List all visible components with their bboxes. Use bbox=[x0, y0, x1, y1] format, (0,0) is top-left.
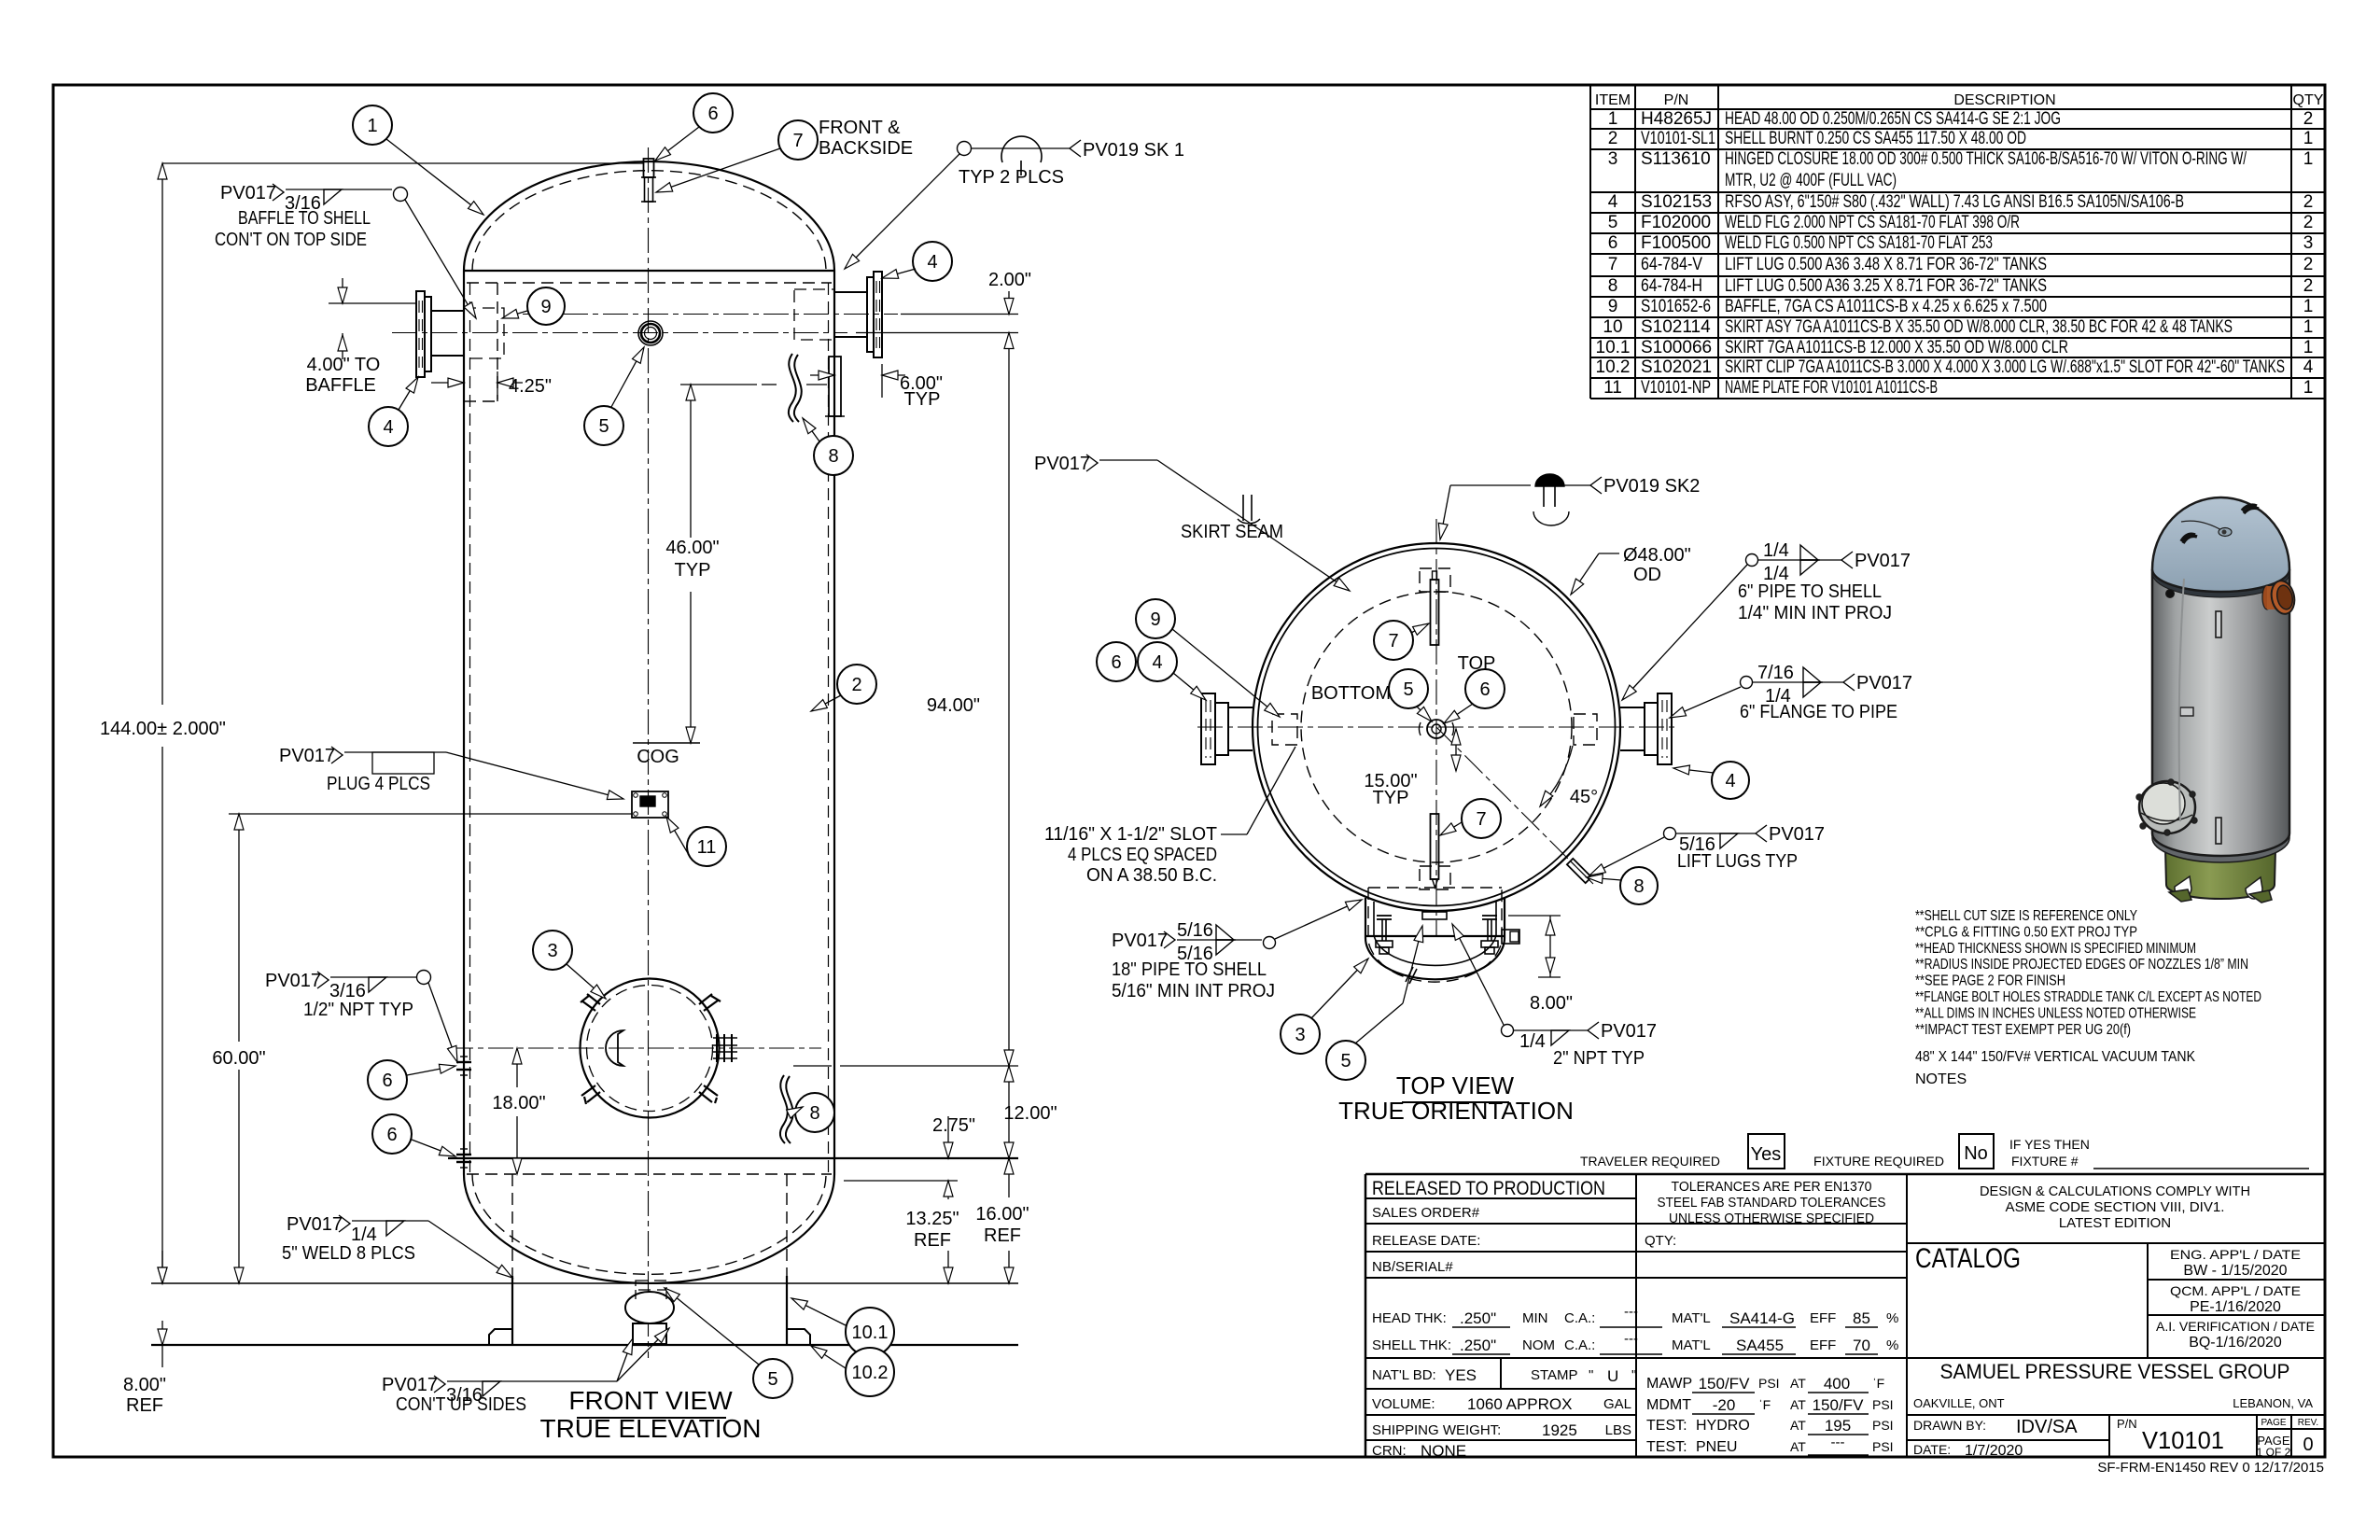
svg-text:HYDRO: HYDRO bbox=[1696, 1418, 1750, 1434]
leader 2 NPT bbox=[1452, 924, 1504, 1025]
skirt right hidden behind head bbox=[786, 1174, 788, 1276]
svg-text:SHELL BURNT 0.250 CS SA455 117: SHELL BURNT 0.250 CS SA455 117.50 X 48.0… bbox=[1725, 129, 2026, 148]
svg-text:3: 3 bbox=[2303, 233, 2314, 253]
svg-text:10: 10 bbox=[1603, 317, 1622, 337]
balloon 5 bottom flange bbox=[753, 1359, 792, 1398]
svg-text:---: --- bbox=[1831, 1435, 1845, 1450]
svg-text:TRUE ELEVATION: TRUE ELEVATION bbox=[539, 1414, 761, 1443]
head tangent hidden circle bbox=[1301, 592, 1572, 862]
svg-text:150/FV: 150/FV bbox=[1813, 1396, 1864, 1414]
skirt slot north bbox=[1420, 568, 1450, 592]
svg-text:**CPLG & FITTING 0.50 EXT PROJ: **CPLG & FITTING 0.50 EXT PROJ TYP bbox=[1915, 924, 2137, 940]
svg-text:**HEAD THICKNESS SHOWN IS SPEC: **HEAD THICKNESS SHOWN IS SPECIFIED MINI… bbox=[1915, 941, 2196, 957]
svg-text:QTY:: QTY: bbox=[1645, 1233, 1676, 1249]
svg-text:2: 2 bbox=[2303, 192, 2314, 212]
leader balloon 3 tv bbox=[1311, 959, 1368, 1018]
skirt weld level line bbox=[844, 1180, 958, 1182]
dome handles bbox=[2181, 534, 2197, 543]
skirt left hidden behind head bbox=[511, 1174, 513, 1276]
svg-text:AT: AT bbox=[1790, 1376, 1806, 1391]
svg-text:PV017: PV017 bbox=[220, 183, 276, 203]
dimension 60.00 bbox=[238, 814, 240, 1042]
svg-text:PV017: PV017 bbox=[1112, 931, 1168, 951]
svg-text:MAT'L: MAT'L bbox=[1672, 1310, 1711, 1326]
leader balloon 7 s bbox=[1440, 822, 1462, 835]
leader balloon 5 tv bbox=[1417, 707, 1432, 721]
manway hinge bolt cluster bbox=[716, 1034, 718, 1062]
weld callout PV019 SK 1 bbox=[958, 142, 972, 156]
18 inch hinged closure item 3 bbox=[581, 979, 720, 1118]
svg-text:": " bbox=[1631, 1367, 1636, 1383]
BOM parts table bbox=[1590, 84, 2325, 86]
svg-text:LEBANON, VA: LEBANON, VA bbox=[2233, 1396, 2313, 1410]
svg-text:C.A.:: C.A.: bbox=[1564, 1337, 1595, 1353]
dimension 4.00 TO BAFFLE bbox=[329, 302, 416, 304]
leader lift lugs bbox=[1589, 837, 1664, 875]
svg-text:1/4: 1/4 bbox=[1763, 540, 1789, 561]
left nozzle raised face bbox=[425, 297, 431, 371]
svg-text:8: 8 bbox=[1633, 876, 1644, 897]
svg-text:P/N: P/N bbox=[2117, 1417, 2137, 1431]
svg-text:S100066: S100066 bbox=[1641, 338, 1712, 357]
svg-text:144.00± 2.000": 144.00± 2.000" bbox=[100, 719, 226, 739]
svg-text:1/4: 1/4 bbox=[1519, 1031, 1546, 1052]
svg-text:V10101: V10101 bbox=[2142, 1426, 2224, 1454]
svg-text:PV017: PV017 bbox=[1601, 1021, 1657, 1042]
leader balloon 6 tv bbox=[1444, 704, 1473, 723]
leader balloon 4 right bbox=[882, 269, 916, 278]
skirt left edge bbox=[511, 1276, 513, 1345]
svg-text:1: 1 bbox=[2303, 297, 2314, 316]
svg-text:SKIRT ASY 7GA A1011CS-B X 35.5: SKIRT ASY 7GA A1011CS-B X 35.50 OD W/8.0… bbox=[1725, 317, 2233, 337]
svg-text:WELD FLG 0.500 NPT CS SA181-70: WELD FLG 0.500 NPT CS SA181-70 FLAT 253 bbox=[1725, 233, 1993, 253]
svg-text:RELEASED TO PRODUCTION: RELEASED TO PRODUCTION bbox=[1372, 1178, 1605, 1199]
COG marker bbox=[633, 742, 700, 744]
svg-text:10.2: 10.2 bbox=[852, 1363, 889, 1383]
tank skirt green bbox=[2165, 849, 2275, 899]
svg-text:AT: AT bbox=[1790, 1439, 1806, 1454]
svg-text:FRONT &: FRONT & bbox=[819, 118, 901, 138]
svg-text:P/N: P/N bbox=[1664, 92, 1689, 108]
svg-text:BACKSIDE: BACKSIDE bbox=[819, 138, 913, 159]
svg-text:H48265J: H48265J bbox=[1641, 109, 1712, 129]
svg-text:1/7/2020: 1/7/2020 bbox=[1965, 1443, 2023, 1459]
svg-text:PNEU: PNEU bbox=[1696, 1439, 1737, 1455]
skirt clip 10.2 right bbox=[787, 1329, 810, 1345]
balloon 10.1 skirt bbox=[846, 1308, 894, 1356]
closure hinge tab bbox=[1502, 930, 1519, 944]
weld seam squiggle lower bbox=[780, 1075, 788, 1143]
dimension 46.00 TYP bbox=[690, 385, 692, 538]
svg-text:1060 APPROX: 1060 APPROX bbox=[1467, 1395, 1572, 1413]
svg-text:6: 6 bbox=[386, 1125, 397, 1145]
svg-text:ON A 38.50 B.C.: ON A 38.50 B.C. bbox=[1086, 865, 1217, 886]
leader balloon 4 east bbox=[1673, 768, 1714, 773]
lift lug item 7 side view right shell bbox=[829, 357, 841, 416]
svg-text:VOLUME:: VOLUME: bbox=[1372, 1396, 1435, 1412]
callout 1/4 2 NPT TYP bbox=[1502, 1025, 1514, 1037]
dimension 4.25 bbox=[497, 371, 498, 399]
svg-text:4: 4 bbox=[1152, 652, 1162, 673]
right nozzle raised face bbox=[867, 277, 874, 352]
leader balloon 10.1 bbox=[791, 1298, 846, 1325]
svg-text:BQ-1/16/2020: BQ-1/16/2020 bbox=[2189, 1335, 2282, 1351]
svg-text:10.1: 10.1 bbox=[1596, 338, 1631, 357]
svg-text:2.75": 2.75" bbox=[932, 1115, 975, 1136]
svg-text:IF YES THEN: IF YES THEN bbox=[2009, 1137, 2090, 1152]
svg-text:RELEASE DATE:: RELEASE DATE: bbox=[1372, 1233, 1480, 1249]
balloon 8 45 lug bbox=[1620, 867, 1658, 904]
right nozzle centerline bbox=[523, 314, 898, 315]
baffle bottom hidden edge bbox=[464, 400, 497, 402]
svg-text:1: 1 bbox=[2303, 129, 2314, 148]
svg-text:.250": .250" bbox=[1460, 1309, 1496, 1327]
svg-text:SALES ORDER#: SALES ORDER# bbox=[1372, 1205, 1480, 1221]
balloon 3 closure bbox=[1281, 1015, 1320, 1054]
svg-text:85: 85 bbox=[1853, 1309, 1870, 1327]
svg-text:---: --- bbox=[1624, 1304, 1638, 1320]
svg-text:SAMUEL PRESSURE VESSEL GROUP: SAMUEL PRESSURE VESSEL GROUP bbox=[1940, 1360, 2290, 1383]
svg-text:13.25": 13.25" bbox=[905, 1209, 959, 1229]
closure drain stub bbox=[1406, 967, 1413, 982]
0.500 NPT coupling item 6 upper bbox=[456, 1061, 471, 1063]
balloon 5 top view bbox=[1389, 669, 1428, 708]
svg-text:AT: AT bbox=[1790, 1397, 1806, 1412]
callout 7/16 1/4 6 flange to pipe bbox=[1741, 677, 1753, 689]
svg-text:MAT'L: MAT'L bbox=[1672, 1337, 1711, 1353]
plug on nameplate bbox=[640, 796, 655, 806]
svg-text:ˈF: ˈF bbox=[1872, 1376, 1884, 1391]
leader balloon 6 upper bbox=[407, 1066, 455, 1075]
closure center pad bbox=[1422, 912, 1447, 919]
svg-text:3: 3 bbox=[1608, 149, 1618, 169]
leader balloon 9 tv bbox=[1172, 629, 1280, 717]
svg-text:6: 6 bbox=[707, 104, 718, 124]
svg-text:CON'T ON TOP SIDE: CON'T ON TOP SIDE bbox=[215, 230, 367, 250]
callout PV019 SK2 bbox=[1450, 484, 1531, 486]
svg-text:SKIRT CLIP 7GA A1011CS-B 3.000: SKIRT CLIP 7GA A1011CS-B 3.000 X 4.000 X… bbox=[1725, 357, 2285, 377]
top head apex extension line bbox=[162, 162, 644, 164]
svg-text:2.00": 2.00" bbox=[988, 270, 1031, 290]
svg-text:TEST:: TEST: bbox=[1646, 1439, 1687, 1455]
svg-text:REV.: REV. bbox=[2298, 1418, 2318, 1428]
svg-text:8.00": 8.00" bbox=[1530, 993, 1573, 1014]
45 deg arc bbox=[1540, 746, 1573, 806]
manway 3d bbox=[2139, 781, 2195, 833]
balloon 7 top lug bbox=[778, 120, 818, 160]
lift lug item 8 at 45 deg bbox=[1567, 859, 1591, 883]
svg-text:PSI: PSI bbox=[1872, 1418, 1894, 1433]
skirt seam tick bbox=[1242, 495, 1244, 521]
svg-text:7: 7 bbox=[1608, 255, 1618, 274]
svg-text:8: 8 bbox=[828, 446, 838, 467]
svg-text:DESIGN & CALCULATIONS COMPLY W: DESIGN & CALCULATIONS COMPLY WITH bbox=[1980, 1183, 2250, 1199]
svg-text:TEST:: TEST: bbox=[1646, 1418, 1687, 1434]
svg-text:PV017: PV017 bbox=[1855, 551, 1911, 571]
svg-text:BAFFLE: BAFFLE bbox=[305, 375, 376, 396]
svg-text:TRUE ORIENTATION: TRUE ORIENTATION bbox=[1338, 1097, 1574, 1125]
leader balloon 1 bbox=[386, 139, 483, 215]
leader balloon 5 bottom bbox=[665, 1288, 759, 1365]
leader balloon 4 west bbox=[1173, 673, 1206, 700]
balloon 5 closure npt bbox=[1326, 1041, 1365, 1080]
svg-text:4: 4 bbox=[2303, 357, 2314, 377]
svg-text:60.00": 60.00" bbox=[212, 1048, 265, 1069]
svg-text:**SEE PAGE 2 FOR FINISH: **SEE PAGE 2 FOR FINISH bbox=[1915, 973, 2065, 989]
balloon 4 right nozzle bbox=[913, 242, 952, 281]
svg-text:MAWP: MAWP bbox=[1646, 1376, 1692, 1392]
svg-text:7: 7 bbox=[792, 131, 803, 151]
svg-text:PV017: PV017 bbox=[382, 1375, 438, 1395]
svg-text:%: % bbox=[1886, 1310, 1898, 1326]
dimension 18.00 bbox=[516, 1048, 518, 1087]
bottom 2.000 NPT weld flange item 5 bbox=[625, 1292, 674, 1323]
svg-text:5/16" MIN INT PROJ: 5/16" MIN INT PROJ bbox=[1112, 981, 1275, 1001]
svg-text:5: 5 bbox=[1403, 679, 1413, 700]
svg-text:ENG. APP'L / DATE: ENG. APP'L / DATE bbox=[2170, 1247, 2301, 1262]
svg-text:REF: REF bbox=[126, 1395, 163, 1416]
balloon 6 lower coupling bbox=[372, 1114, 412, 1154]
svg-text:PV017: PV017 bbox=[265, 971, 321, 991]
svg-text:4 PLCS EQ SPACED: 4 PLCS EQ SPACED bbox=[1068, 845, 1217, 865]
tank top head bbox=[2152, 569, 2289, 597]
top tangent hidden line bbox=[467, 282, 832, 284]
svg-text:7/16: 7/16 bbox=[1757, 663, 1794, 683]
svg-text:QCM. APP'L / DATE: QCM. APP'L / DATE bbox=[2170, 1283, 2301, 1298]
svg-text:PAGE: PAGE bbox=[2261, 1418, 2286, 1428]
lift lug item 7 north bbox=[1431, 580, 1439, 645]
svg-text:REF: REF bbox=[984, 1225, 1021, 1246]
balloon 7 north lug bbox=[1374, 621, 1413, 660]
svg-text:STAMP: STAMP bbox=[1531, 1367, 1578, 1383]
svg-text:NAME PLATE FOR V10101 A1011CS-: NAME PLATE FOR V10101 A1011CS-B bbox=[1725, 378, 1938, 398]
svg-text:PV017: PV017 bbox=[279, 746, 335, 766]
vessel vertical centerline bbox=[648, 147, 650, 1358]
svg-text:REF: REF bbox=[914, 1230, 951, 1251]
leader balloon 8 upper bbox=[803, 418, 819, 441]
balloon 6 upper coupling bbox=[368, 1060, 407, 1099]
svg-text:4: 4 bbox=[1608, 192, 1618, 212]
balloon 9 top view bbox=[1136, 599, 1175, 638]
dimension 8.00 REF bbox=[161, 1251, 163, 1283]
balloon 7 south lug bbox=[1462, 799, 1501, 838]
dimension 6.00 TYP bbox=[881, 364, 883, 398]
svg-text:UNLESS OTHERWISE SPECIFIED: UNLESS OTHERWISE SPECIFIED bbox=[1669, 1211, 1874, 1226]
svg-text:Yes: Yes bbox=[1751, 1144, 1782, 1165]
body details bbox=[2166, 590, 2175, 598]
right nozzle flange plate bbox=[874, 272, 882, 357]
dimension 144.00 +/- 2.000 bbox=[161, 163, 163, 705]
svg-text:11/16" X 1-1/2" SLOT: 11/16" X 1-1/2" SLOT bbox=[1044, 824, 1217, 845]
nozzle item 4 west bbox=[1201, 693, 1215, 764]
closure swing bolt left bbox=[1377, 915, 1392, 917]
svg-text:OD: OD bbox=[1633, 565, 1661, 585]
orange nozzle flange bbox=[2262, 585, 2272, 609]
svg-text:FIXTURE REQUIRED: FIXTURE REQUIRED bbox=[1813, 1154, 1944, 1169]
closure solid outline bbox=[1365, 898, 1505, 979]
balloon 2 shell bbox=[837, 665, 876, 704]
leader 6 flange to pipe bbox=[1670, 687, 1741, 718]
tank bottom head dark band bbox=[2152, 831, 2289, 862]
svg-text:EFF: EFF bbox=[1810, 1337, 1836, 1353]
svg-text:LBS: LBS bbox=[1605, 1422, 1631, 1438]
svg-text:8: 8 bbox=[809, 1103, 819, 1124]
leader balloon 8 lower bbox=[795, 1107, 803, 1111]
leader balloon 9 bbox=[502, 311, 527, 318]
svg-text:6" PIPE TO SHELL: 6" PIPE TO SHELL bbox=[1738, 581, 1882, 602]
svg-text:LIFT LUGS TYP: LIFT LUGS TYP bbox=[1677, 851, 1798, 872]
svg-text:9: 9 bbox=[1608, 297, 1618, 316]
svg-text:QTY: QTY bbox=[2293, 92, 2324, 108]
svg-text:EFF: EFF bbox=[1810, 1310, 1836, 1326]
svg-text:4.00" TO: 4.00" TO bbox=[307, 355, 381, 375]
svg-text:1925: 1925 bbox=[1542, 1421, 1577, 1439]
svg-text:8: 8 bbox=[1608, 276, 1618, 296]
svg-text:8.00": 8.00" bbox=[123, 1375, 166, 1395]
svg-text:PV019 SK 1: PV019 SK 1 bbox=[1083, 140, 1184, 161]
lift lug item 7 front&backside on top head bbox=[645, 177, 653, 202]
svg-text:TYP: TYP bbox=[1373, 788, 1409, 808]
leader balloon 6 top bbox=[655, 127, 699, 161]
svg-text:": " bbox=[1589, 1367, 1593, 1383]
svg-text:5: 5 bbox=[598, 416, 609, 437]
left nozzle flange plate bbox=[416, 291, 425, 377]
left nozzle centerline bbox=[392, 332, 847, 334]
svg-text:PLUG 4 PLCS: PLUG 4 PLCS bbox=[327, 774, 430, 794]
svg-text:HEAD THK:: HEAD THK: bbox=[1372, 1310, 1447, 1326]
svg-text:6: 6 bbox=[1479, 679, 1490, 700]
svg-text:HINGED CLOSURE 18.00 OD 300# 0: HINGED CLOSURE 18.00 OD 300# 0.500 THICK… bbox=[1725, 149, 2247, 169]
svg-text:SA455: SA455 bbox=[1736, 1337, 1784, 1354]
svg-text:C.A.:: C.A.: bbox=[1564, 1310, 1595, 1326]
svg-text:SHIPPING WEIGHT:: SHIPPING WEIGHT: bbox=[1372, 1422, 1501, 1438]
svg-text:400: 400 bbox=[1824, 1375, 1850, 1393]
plug box symbol bbox=[372, 752, 434, 774]
svg-text:RFSO ASY, 6"150# S80 (.432" WA: RFSO ASY, 6"150# S80 (.432" WALL) 7.43 L… bbox=[1725, 192, 2184, 212]
svg-text:12.00": 12.00" bbox=[1003, 1103, 1057, 1124]
svg-text:45°: 45° bbox=[1570, 787, 1598, 807]
svg-text:5/16: 5/16 bbox=[1177, 920, 1213, 941]
svg-text:TOLERANCES ARE PER EN1370: TOLERANCES ARE PER EN1370 bbox=[1672, 1179, 1872, 1195]
skirt base line bbox=[151, 1344, 1018, 1346]
svg-text:WELD FLG 2.000 NPT CS SA181-70: WELD FLG 2.000 NPT CS SA181-70 FLAT 398 … bbox=[1725, 213, 2020, 232]
0.500 NPT coupling item 6 lower bbox=[456, 1154, 471, 1155]
svg-text:PSI: PSI bbox=[1872, 1397, 1894, 1412]
svg-text:2: 2 bbox=[2303, 255, 2314, 274]
svg-text:TYP 2 PLCS: TYP 2 PLCS bbox=[959, 167, 1064, 188]
head OD circle bbox=[1253, 543, 1620, 911]
svg-text:NOTES: NOTES bbox=[1915, 1071, 1967, 1087]
45 deg centerline bbox=[1436, 727, 1593, 884]
balloon 6 west bbox=[1097, 642, 1136, 681]
svg-text:STEEL FAB STANDARD TOLERANCES: STEEL FAB STANDARD TOLERANCES bbox=[1658, 1195, 1886, 1211]
top 2:1 elliptical head outer bbox=[464, 161, 834, 271]
svg-text:BOTTOM: BOTTOM bbox=[1311, 683, 1391, 704]
svg-text:S102114: S102114 bbox=[1641, 317, 1711, 337]
balloon 10.2 skirt clip bbox=[846, 1348, 894, 1396]
svg-text:F100500: F100500 bbox=[1641, 233, 1711, 253]
balloon 8 lower weld bbox=[795, 1093, 834, 1132]
svg-text:SKIRT 7GA A1011CS-B 12.000 X: SKIRT 7GA A1011CS-B 12.000 X 35.50 OD W/… bbox=[1725, 338, 2068, 357]
nameplate extension line bbox=[229, 813, 632, 815]
svg-text:OAKVILLE, ONT: OAKVILLE, ONT bbox=[1913, 1396, 2005, 1410]
balloon 4 west bbox=[1138, 642, 1177, 681]
svg-text:ˈF: ˈF bbox=[1758, 1397, 1771, 1412]
svg-text:SKIRT SEAM: SKIRT SEAM bbox=[1181, 522, 1283, 542]
name plate item 11 bbox=[632, 791, 668, 818]
leader PV019 SK1 bbox=[845, 154, 959, 269]
svg-text:6: 6 bbox=[382, 1071, 392, 1091]
balloon 1 head bbox=[353, 105, 392, 145]
callout 5/16 lift lugs typ bbox=[1664, 828, 1676, 840]
svg-text:1: 1 bbox=[367, 116, 377, 136]
svg-text:%: % bbox=[1886, 1337, 1898, 1353]
svg-text:2" NPT TYP: 2" NPT TYP bbox=[1553, 1048, 1645, 1069]
balloon 5 top coupling bbox=[584, 406, 623, 445]
svg-text:16.00": 16.00" bbox=[975, 1204, 1029, 1225]
leader balloon 5 closure bbox=[1403, 926, 1422, 1003]
svg-text:AT: AT bbox=[1790, 1418, 1806, 1433]
bottom head inner surface hidden bbox=[472, 1174, 826, 1274]
skirt slot east bbox=[1574, 714, 1597, 745]
center 0.5 NPT coupling bbox=[1427, 720, 1446, 738]
bottom head seam line bbox=[448, 1157, 1018, 1159]
svg-text:TYP: TYP bbox=[904, 389, 941, 410]
svg-text:NONE: NONE bbox=[1421, 1442, 1466, 1460]
svg-text:PV017: PV017 bbox=[287, 1214, 343, 1235]
right nozzle shell penetration hidden bbox=[794, 289, 834, 340]
bottom head reference line bbox=[151, 1282, 1018, 1284]
svg-text:4: 4 bbox=[1725, 771, 1735, 791]
svg-text:10.2: 10.2 bbox=[1596, 357, 1631, 377]
dimension 2.00 bbox=[901, 314, 1018, 315]
leader balloon 2 bbox=[811, 695, 841, 711]
svg-text:1: 1 bbox=[2303, 317, 2314, 337]
shell OD circle bbox=[1258, 549, 1616, 906]
svg-text:---: --- bbox=[1624, 1331, 1638, 1347]
svg-text:MTR, U2 @ 400F (FULL VAC): MTR, U2 @ 400F (FULL VAC) bbox=[1725, 171, 1897, 190]
svg-text:2: 2 bbox=[2303, 276, 2314, 296]
manway stud lugs bbox=[699, 1085, 718, 1103]
nozzle item 4 east bbox=[1658, 693, 1672, 764]
dimension 2.75 bbox=[947, 1116, 949, 1158]
balloon 4 east bbox=[1712, 762, 1749, 799]
svg-text:4.25": 4.25" bbox=[509, 376, 552, 397]
top head seam line bbox=[464, 270, 834, 272]
svg-text:18.00": 18.00" bbox=[492, 1093, 545, 1113]
dimension 13.25 REF bbox=[947, 1181, 949, 1199]
skirt right edge bbox=[786, 1276, 788, 1345]
leader SK2 bbox=[1440, 485, 1450, 539]
svg-text:1/4" MIN INT PROJ: 1/4" MIN INT PROJ bbox=[1738, 603, 1892, 623]
svg-text:CON'T UP SIDES: CON'T UP SIDES bbox=[396, 1394, 526, 1415]
tank cylindrical body bbox=[2152, 569, 2289, 856]
svg-text:LIFT LUG 0.500 A36 3.48 X 8.71: LIFT LUG 0.500 A36 3.48 X 8.71 FOR 36-72… bbox=[1725, 255, 2047, 274]
svg-text:195: 195 bbox=[1825, 1417, 1851, 1435]
dimension 94.00 bbox=[1008, 333, 1010, 1067]
svg-text:PV017: PV017 bbox=[1034, 454, 1090, 474]
svg-text:11: 11 bbox=[697, 837, 717, 858]
leader balloon 5 front bbox=[611, 347, 644, 407]
SK2 dome symbol bbox=[1535, 474, 1564, 486]
svg-text:Ø48.00": Ø48.00" bbox=[1623, 545, 1691, 566]
lift lug item 7 south bbox=[1431, 814, 1439, 879]
svg-text:BAFFLE, 7GA CS A1011CS-B x 4.2: BAFFLE, 7GA CS A1011CS-B x 4.25 x 6.625 … bbox=[1725, 297, 2047, 316]
svg-text:MDMT: MDMT bbox=[1646, 1397, 1691, 1413]
manway davit handle bbox=[606, 1030, 623, 1066]
svg-text:1: 1 bbox=[2303, 338, 2314, 357]
svg-text:FIXTURE #: FIXTURE # bbox=[2011, 1154, 2079, 1169]
